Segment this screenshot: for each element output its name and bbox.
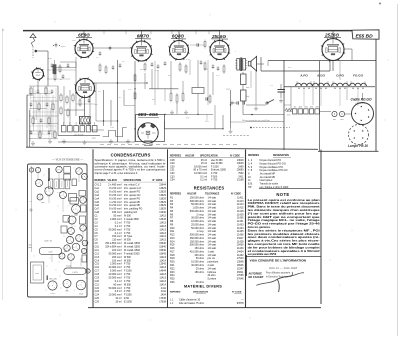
svg-text:36.2: 36.2 (37, 67, 41, 69)
svg-text:N° CODE: N° CODE (232, 291, 242, 293)
svg-text:VISA CENSURE DE L’INFORMATION: VISA CENSURE DE L’INFORMATION (250, 258, 307, 262)
svg-text:PMI. Dans le texte du présent: PMI. Dans le texte du présent document (248, 205, 320, 209)
svg-text:17639: 17639 (159, 301, 166, 304)
svg-text:REPERES: REPERES (170, 194, 181, 196)
svg-text:25Z6: 25Z6 (50, 293, 54, 295)
svg-text:les éléments marqués d'un as: les éléments marqués d'un astérisque (248, 208, 321, 212)
svg-text:F 750: F 750 (211, 179, 218, 182)
svg-text:REPERES: REPERES (95, 180, 106, 182)
svg-text:25L6G: 25L6G (211, 34, 226, 39)
svg-text:SPECIFICATION: SPECIFICATION (200, 154, 218, 157)
svg-text:25L6: 25L6 (79, 294, 83, 296)
svg-text:Ca1: Ca1 (72, 40, 76, 42)
svg-text:de fer pour bobines de blindag: de fer pour bobines de blindage complet (248, 245, 320, 249)
svg-text:L 470: L 470 (72, 272, 78, 274)
svg-text:O.PO: O.PO (336, 74, 344, 78)
svg-text:l'étage magique BCL. ne suite: l'étage magique BCL. ne suite, l'étage (248, 218, 321, 222)
svg-text:E55 BD: E55 BD (356, 34, 374, 40)
svg-text:N° CODE: N° CODE (231, 194, 241, 196)
svg-text:RESISTANCES: RESISTANCES (194, 185, 225, 190)
svg-text:N° CODE: N° CODE (230, 155, 240, 157)
svg-text:VALEUR: VALEUR (185, 154, 195, 157)
svg-text:et condensateurs ajustables 3: et condensateurs ajustables 3 à 50mmf (248, 249, 320, 253)
svg-text:sur paralléle aux 25/50: sur paralléle aux 25/50 (248, 252, 277, 256)
svg-text:REPERES: REPERES (170, 291, 181, 293)
svg-text:605: 605 (340, 119, 343, 121)
svg-text:AUTORISE: AUTORISE (249, 271, 263, 275)
svg-text:8mf: 8mf (246, 86, 250, 89)
svg-text:NOTE: NOTE (276, 192, 289, 197)
svg-text:DESIGNATION: DESIGNATION (273, 154, 289, 157)
svg-text:MC 250: MC 250 (50, 278, 58, 280)
svg-text:FO.GO: FO.GO (353, 74, 364, 78)
svg-text:0,2 mf: 0,2 mf (200, 179, 207, 182)
svg-text:SPECIFICATION: SPECIFICATION (124, 179, 142, 182)
svg-text:dans les gammes.: dans les gammes. (248, 225, 271, 229)
svg-text:C26: C26 (95, 301, 100, 304)
svg-text:ED CACHET: ED CACHET (249, 275, 265, 279)
svg-text:CONDENSATEURS: CONDENSATEURS (111, 152, 151, 157)
svg-text:C26 / 47: C26 / 47 (44, 241, 53, 243)
svg-text:VALEUR: VALEUR (187, 193, 197, 196)
svg-text:27646: 27646 (237, 278, 244, 281)
svg-text:20 ohm: 20 ohm (196, 281, 204, 284)
svg-text:glages à vis.Ces séries les pl: glages à vis.Ces séries les plus récen- (248, 239, 320, 243)
svg-text:Lampe PB 30: Lampe PB 30 (348, 144, 368, 148)
svg-text:toile de fixation 75 ohm: toile de fixation 75 ohm (179, 302, 204, 305)
svg-text:A.GO: A.GO (316, 74, 326, 78)
svg-text:25Z6G: 25Z6G (324, 32, 339, 37)
svg-text:avec deux condensateurs ajusté: avec deux condensateurs ajustés (ré- (248, 235, 320, 239)
svg-text:pareils GBT qui ne comport: pareils GBT qui ne comportent que (248, 215, 321, 219)
svg-text:Le présent opéra est conforme: Le présent opéra est conforme au plan (248, 198, 321, 202)
svg-text:5 prises: 5 prises (208, 278, 217, 281)
svg-text:N° CODE: N° CODE (153, 180, 163, 182)
svg-text:TOLERANCE: TOLERANCE (205, 193, 220, 196)
svg-text:d'après page T et M, et les to: d'après page T et M, et les tolérances K… (95, 172, 139, 175)
svg-text:PO-GO est remplacé par l'étag: PO-GO est remplacé par l'étage 25-46 (248, 222, 321, 226)
svg-text:(*) ne sont pas utilisés pour: (*) ne sont pas utilisés pour les ap- (248, 211, 320, 215)
svg-text:CENTRA OUEST; relatif aux réce: CENTRA OUEST; relatif aux récepteurs (248, 201, 321, 205)
svg-text:A.PO: A.PO (299, 74, 308, 78)
svg-text:REPERES: REPERES (170, 155, 181, 157)
svg-text:tes comportent un tore MF bobi: tes comportent un tore MF bobi noëlle (248, 242, 321, 246)
svg-text:Dans les séries le récepteurs: Dans les séries le récepteurs MF , PGI (248, 228, 320, 232)
svg-text:MATÉRIEL DIVERS: MATÉRIEL DIVERS (184, 284, 222, 289)
svg-text:les premiers modèles étaient: les premiers modèles étaient châssis (248, 232, 321, 236)
svg-text:6E3- 6G5: 6E3- 6G5 (138, 112, 158, 117)
svg-text:6Q8G: 6Q8G (172, 34, 185, 39)
svg-text:6M7G: 6M7G (137, 34, 150, 39)
svg-text:97878: 97878 (237, 302, 244, 305)
svg-text:REPERES: REPERES (248, 155, 259, 157)
svg-text:DESIGNATION: DESIGNATION (193, 290, 208, 293)
svg-text:Cadre PO.GO: Cadre PO.GO (350, 97, 372, 101)
svg-text:— VUE INTERIEURE —: — VUE INTERIEURE — (51, 158, 84, 162)
svg-text:663: 663 (333, 119, 336, 121)
svg-text:Juin 12 — Juin 1943: Juin 12 — Juin 1943 (269, 266, 298, 270)
svg-text:à pris: à pris (61, 46, 66, 48)
svg-text:HP: HP (248, 186, 252, 189)
svg-text:C34: C34 (170, 179, 175, 182)
svg-text:VALEUR: VALEUR (108, 179, 118, 182)
svg-text:13138: 13138 (237, 179, 244, 182)
svg-text:180 ohm: 180 ohm (195, 271, 205, 274)
svg-text:Pour diffusion autorisée: Pour diffusion autorisée (266, 272, 291, 275)
svg-text:10 mf: 10 mf (115, 301, 121, 304)
svg-text:MF1: MF1 (139, 69, 144, 71)
svg-text:R26: R26 (170, 281, 175, 284)
svg-text:8mf: 8mf (246, 95, 250, 98)
svg-text:E 1500: E 1500 (124, 301, 132, 304)
svg-text:R11: R11 (151, 99, 155, 101)
